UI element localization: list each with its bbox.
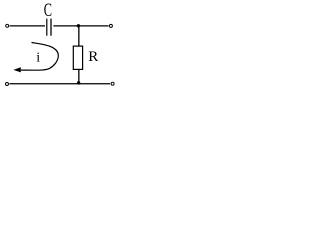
terminal bottom-right <box>111 82 114 85</box>
svg-text:i: i <box>36 51 40 66</box>
wire top-right (capacitor to terminal) <box>53 25 108 27</box>
capacitor C plates <box>47 19 51 36</box>
terminal top-right <box>109 24 112 27</box>
current loop arrow i <box>13 43 58 73</box>
wire top-left (terminal to capacitor) <box>10 25 45 27</box>
wire resistor to bottom junction <box>78 69 80 83</box>
wire junction to resistor <box>78 26 80 46</box>
terminal bottom-left <box>6 83 9 86</box>
svg-text:R: R <box>88 49 98 65</box>
node top junction <box>77 24 80 27</box>
terminal top-left <box>6 24 9 27</box>
node bottom junction <box>77 81 80 84</box>
svg-text:C: C <box>44 1 52 21</box>
wire bottom <box>9 83 110 85</box>
resistor R <box>73 46 82 69</box>
